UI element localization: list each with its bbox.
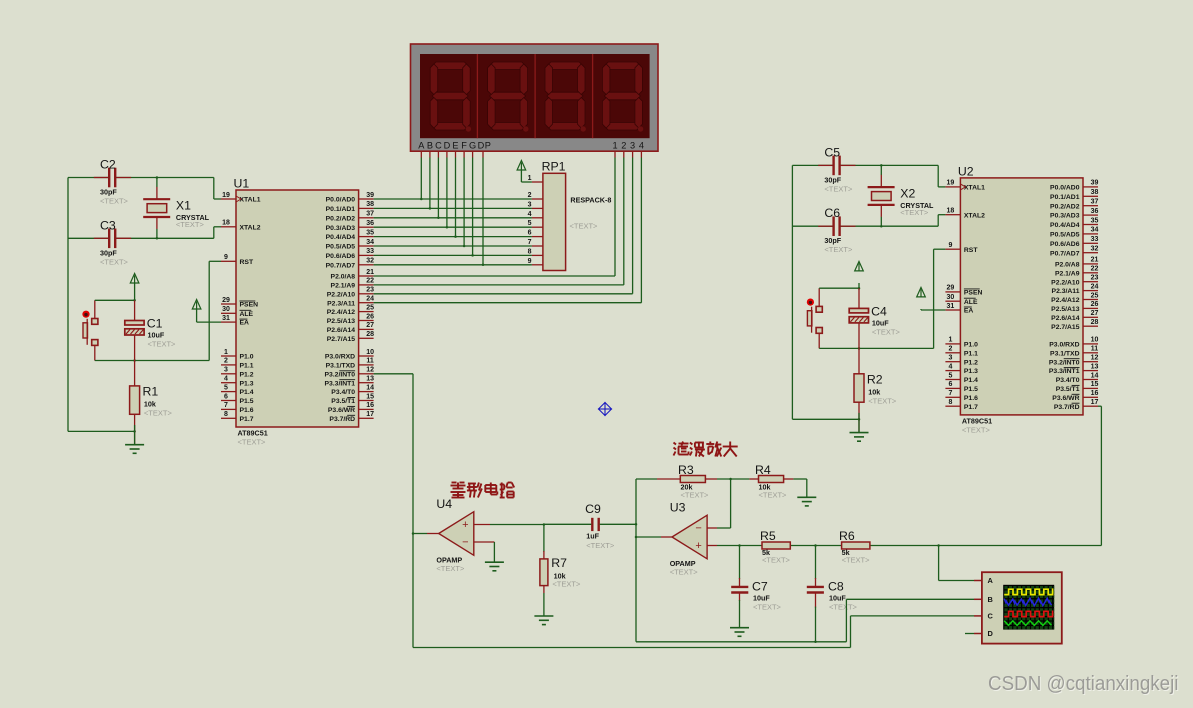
- svg-text:P3.0/RXD: P3.0/RXD: [1049, 342, 1079, 349]
- svg-text:P0.4/AD4: P0.4/AD4: [326, 234, 356, 241]
- svg-text:U3: U3: [670, 501, 686, 515]
- wire P2.2 net: U1 to display digit select 3: [374, 158, 633, 294]
- capacitor C6 30pF: [824, 206, 853, 254]
- svg-text:C4: C4: [871, 304, 887, 318]
- svg-text:C: C: [435, 140, 442, 150]
- svg-text:30: 30: [222, 306, 230, 313]
- wire P0.4 net: display segment E to U1 and RP1 pin 6: [374, 158, 532, 238]
- svg-text:P3.4/T0: P3.4/T0: [331, 389, 355, 396]
- svg-text:P0.7/AD7: P0.7/AD7: [326, 262, 356, 269]
- wire P2.0 net: U1 to display digit select 1: [374, 158, 615, 277]
- svg-text:U4: U4: [436, 497, 452, 511]
- wire P2.1 net: U1 to display digit select 2: [374, 158, 624, 285]
- wire button bottom to RST node: [819, 333, 933, 349]
- ground below R7: [534, 615, 553, 617]
- svg-text:35: 35: [366, 229, 374, 236]
- svg-text:AT89C51: AT89C51: [962, 416, 992, 425]
- wire RST net (button/cap/res to RST pin): [934, 249, 946, 348]
- svg-text:5: 5: [224, 384, 228, 391]
- wire C9 left lead to U4/R7 node: [544, 523, 591, 525]
- svg-text:4: 4: [948, 363, 952, 370]
- svg-text:10: 10: [1091, 337, 1099, 344]
- svg-text:ALE: ALE: [240, 311, 254, 318]
- ground at U4 inverting input: [485, 561, 504, 563]
- svg-text:17: 17: [366, 411, 374, 418]
- svg-text:10uF: 10uF: [148, 331, 165, 340]
- svg-text:P0.1/AD1: P0.1/AD1: [1050, 194, 1080, 201]
- svg-text:12: 12: [1091, 355, 1099, 362]
- wire scope D stub: [965, 633, 974, 635]
- svg-text:P0.3/AD3: P0.3/AD3: [326, 225, 356, 232]
- svg-text:P3.1/TXD: P3.1/TXD: [1050, 350, 1080, 357]
- wire XTAL2 net (C6 / X2 / XTAL2): [792, 205, 945, 228]
- mcu U1 AT89C51: [221, 177, 374, 447]
- svg-text:5: 5: [948, 372, 952, 379]
- wire P0.0 net: display segment A to U1 and RP1 pin 2: [374, 158, 532, 201]
- mcu U2 right pins P0 P2 P3: [1049, 180, 1099, 411]
- svg-text:P2.0/A8: P2.0/A8: [331, 274, 356, 281]
- power terminal at EA pin: [192, 300, 221, 323]
- op-amp U4 OPAMP: [436, 497, 473, 573]
- svg-text:36: 36: [366, 220, 374, 227]
- svg-text:P3.5/T1: P3.5/T1: [331, 398, 355, 405]
- crystal X1 CRYSTAL: [143, 199, 209, 230]
- wire P0.3 net: display segment D to U1 and RP1 pin 5: [374, 158, 532, 229]
- svg-text:R6: R6: [839, 529, 855, 543]
- svg-text:P0.6/AD6: P0.6/AD6: [1050, 241, 1080, 248]
- resistor R5 5k: [760, 529, 791, 565]
- svg-text:P1.5: P1.5: [240, 398, 254, 405]
- svg-text:P2.7/A15: P2.7/A15: [327, 336, 356, 343]
- wire P0.2 net: display segment C to U1 and RP1 pin 4: [374, 158, 532, 220]
- svg-text:21: 21: [366, 269, 374, 276]
- svg-text:P2.6/A14: P2.6/A14: [1051, 315, 1080, 322]
- svg-text:<TEXT>: <TEXT>: [829, 603, 858, 612]
- svg-text:P1.3: P1.3: [964, 368, 978, 375]
- svg-text:16: 16: [1091, 390, 1099, 397]
- capacitor C8 10uF: [807, 546, 858, 612]
- svg-text:R1: R1: [143, 385, 159, 399]
- caption text: shaping circuit (Chinese): [451, 483, 515, 498]
- svg-text:<TEXT>: <TEXT>: [238, 438, 267, 447]
- svg-text:P0.0/AD0: P0.0/AD0: [1050, 185, 1080, 192]
- svg-text:<TEXT>: <TEXT>: [100, 257, 129, 266]
- svg-text:DP: DP: [478, 140, 492, 150]
- svg-text:P2.3/A11: P2.3/A11: [1052, 288, 1080, 295]
- svg-text:13: 13: [366, 376, 374, 383]
- svg-text:3: 3: [948, 355, 952, 362]
- svg-text:10uF: 10uF: [872, 318, 889, 327]
- scope waveform channel D green triangle: [1004, 621, 1051, 626]
- svg-text:24: 24: [366, 296, 374, 303]
- svg-text:<TEXT>: <TEXT>: [144, 409, 173, 418]
- svg-text:8: 8: [948, 399, 952, 406]
- svg-text:16: 16: [366, 402, 374, 409]
- svg-text:10k: 10k: [144, 400, 156, 409]
- wire U3 non-inverting input row to R5 R6 and scope A: [707, 406, 1101, 580]
- svg-text:<TEXT>: <TEXT>: [100, 197, 129, 206]
- svg-text:35: 35: [1091, 217, 1099, 224]
- svg-text:1: 1: [224, 349, 228, 356]
- wire R7 bottom to ground: [543, 586, 545, 616]
- wire RST net (button/cap/res to RST pin): [209, 261, 221, 360]
- svg-text:CSDN @cqtianxingkeji: CSDN @cqtianxingkeji: [988, 673, 1179, 695]
- wire P0.6 net: display segment G to U1 and RP1 pin 8: [374, 158, 532, 257]
- svg-text:<TEXT>: <TEXT>: [753, 603, 782, 612]
- svg-text:32: 32: [1091, 246, 1099, 253]
- wire C4 bottom to R2 top: [858, 323, 860, 374]
- resistor R2 10k: [854, 372, 897, 405]
- wire R7 top lead: [543, 524, 545, 559]
- svg-text:XTAL2: XTAL2: [964, 212, 985, 219]
- svg-text:P0.7/AD7: P0.7/AD7: [1050, 250, 1080, 257]
- svg-text:P3.1/TXD: P3.1/TXD: [326, 363, 356, 370]
- svg-text:<TEXT>: <TEXT>: [586, 541, 615, 550]
- mcu U2 AT89C51: [945, 164, 1098, 434]
- svg-text:23: 23: [366, 287, 374, 294]
- svg-text:P1.2: P1.2: [964, 359, 978, 366]
- op-amp U3 OPAMP: [670, 501, 707, 577]
- svg-text:<TEXT>: <TEXT>: [762, 556, 791, 565]
- svg-text:<TEXT>: <TEXT>: [681, 491, 710, 500]
- svg-text:+: +: [462, 519, 468, 531]
- svg-text:P2.5/A13: P2.5/A13: [1051, 306, 1080, 313]
- svg-text:P0.0/AD0: P0.0/AD0: [326, 197, 356, 204]
- svg-text:A: A: [988, 576, 994, 585]
- svg-text:P0.1/AD1: P0.1/AD1: [326, 206, 356, 213]
- svg-text:P0.6/AD6: P0.6/AD6: [326, 253, 356, 260]
- svg-text:X2: X2: [900, 186, 915, 200]
- oscilloscope (4-channel) icon: [974, 572, 1062, 643]
- svg-text:18: 18: [222, 220, 230, 227]
- svg-text:C9: C9: [585, 502, 601, 516]
- svg-text:11: 11: [1091, 346, 1099, 353]
- svg-text:P0.5/AD5: P0.5/AD5: [1050, 232, 1080, 239]
- wire ground rail left: [792, 165, 860, 420]
- capacitor C4 10uF electrolytic: [849, 288, 900, 336]
- svg-text:P3.6/WR: P3.6/WR: [328, 407, 355, 414]
- svg-text:P0.2/AD2: P0.2/AD2: [1050, 203, 1080, 210]
- svg-text:1: 1: [948, 337, 952, 344]
- capacitor C3 30pF: [100, 218, 129, 266]
- wire button top to VCC node: [95, 299, 136, 318]
- svg-text:B: B: [988, 595, 993, 604]
- svg-text:R5: R5: [760, 529, 776, 543]
- svg-text:30pF: 30pF: [100, 188, 117, 197]
- wire P0.5 net: display segment F to U1 and RP1 pin 7: [374, 158, 532, 248]
- svg-text:R2: R2: [867, 372, 883, 386]
- resistor R4 10k: [755, 463, 787, 500]
- svg-text:P2.2/A10: P2.2/A10: [327, 291, 356, 298]
- svg-text:9: 9: [224, 254, 228, 261]
- svg-text:37: 37: [366, 211, 374, 218]
- svg-text:R7: R7: [551, 556, 567, 570]
- svg-text:RP1: RP1: [542, 160, 566, 174]
- svg-text:22: 22: [1091, 266, 1099, 273]
- svg-text:C6: C6: [824, 206, 840, 220]
- wire XTAL1 net (C5 / X2 / XTAL1): [792, 164, 945, 187]
- svg-text:<TEXT>: <TEXT>: [148, 340, 177, 349]
- svg-text:P3.4/T0: P3.4/T0: [1056, 377, 1080, 384]
- svg-text:34: 34: [366, 239, 374, 246]
- power terminal VCC above C4: [855, 261, 864, 288]
- svg-text:X1: X1: [176, 199, 191, 213]
- svg-text:P1.0: P1.0: [964, 342, 978, 349]
- svg-text:32: 32: [366, 258, 374, 265]
- power terminal at EA pin: [917, 287, 946, 310]
- svg-text:13: 13: [1091, 363, 1099, 370]
- svg-text:39: 39: [1091, 180, 1099, 187]
- svg-text:<TEXT>: <TEXT>: [868, 396, 897, 405]
- svg-text:XTAL2: XTAL2: [240, 224, 261, 231]
- svg-text:P0.2/AD2: P0.2/AD2: [326, 215, 356, 222]
- svg-text:24: 24: [1091, 283, 1099, 290]
- svg-text:<TEXT>: <TEXT>: [552, 580, 581, 589]
- scope waveform channel B blue sine: [1004, 598, 1051, 606]
- svg-text:<TEXT>: <TEXT>: [824, 245, 853, 254]
- wire button top to VCC node: [819, 287, 860, 306]
- svg-text:RST: RST: [240, 259, 254, 266]
- svg-text:34: 34: [1091, 227, 1099, 234]
- wire C8 bottom to U3 output rail (scope B net): [636, 599, 974, 643]
- wire R3 right to R4 left and U3 inverting input: [705, 478, 758, 528]
- wire P2.3 net: U1 to display digit select 4: [374, 158, 642, 303]
- wire U3 output vertical and feedback / scope B rail: [635, 479, 681, 642]
- wire U4 inverting input to ground: [474, 542, 495, 562]
- svg-text:30pF: 30pF: [824, 175, 841, 184]
- push button (reset): [82, 311, 97, 346]
- svg-text:P1.0: P1.0: [240, 354, 254, 361]
- mcu U1 right pins P0 P2 P3: [324, 192, 374, 423]
- svg-text:C1: C1: [147, 317, 163, 331]
- svg-text:P1.2: P1.2: [240, 371, 254, 378]
- svg-text:15: 15: [1091, 381, 1099, 388]
- svg-text:XTAL1: XTAL1: [240, 197, 261, 204]
- ground below C7: [730, 627, 749, 629]
- svg-text:2: 2: [621, 140, 626, 150]
- svg-text:4: 4: [224, 376, 228, 383]
- svg-text:AT89C51: AT89C51: [238, 429, 268, 438]
- svg-text:33: 33: [1091, 236, 1099, 243]
- svg-text:−: −: [695, 522, 701, 534]
- wire button bottom to RST node: [95, 345, 209, 361]
- capacitor C9 1uF: [585, 502, 615, 550]
- wire XTAL1 net (C2 / X1 / XTAL1): [68, 176, 221, 199]
- svg-text:RESPACK-8: RESPACK-8: [570, 196, 611, 205]
- scope waveform channel A yellow square: [1004, 589, 1053, 594]
- power terminal VCC above C1: [130, 274, 139, 301]
- svg-text:38: 38: [1091, 189, 1099, 196]
- svg-text:P1.6: P1.6: [240, 407, 254, 414]
- svg-text:27: 27: [1091, 310, 1099, 317]
- wire U4 non-inverting input to R7/C9 node: [474, 523, 545, 526]
- svg-text:U1: U1: [234, 177, 250, 191]
- svg-text:<TEXT>: <TEXT>: [570, 222, 599, 231]
- wire C9 right lead to U3 output vertical: [600, 523, 638, 526]
- svg-text:28: 28: [1091, 319, 1099, 326]
- svg-text:P1.4: P1.4: [964, 377, 978, 384]
- svg-text:3: 3: [224, 367, 228, 374]
- svg-text:<TEXT>: <TEXT>: [962, 425, 991, 434]
- svg-text:EA: EA: [240, 320, 250, 327]
- svg-text:6: 6: [224, 393, 228, 400]
- svg-text:P2.5/A13: P2.5/A13: [327, 318, 356, 325]
- svg-text:R3: R3: [678, 463, 694, 477]
- svg-text:37: 37: [1091, 199, 1099, 206]
- svg-text:P3.0/RXD: P3.0/RXD: [325, 354, 355, 361]
- svg-text:C8: C8: [828, 580, 844, 594]
- svg-text:38: 38: [366, 201, 374, 208]
- svg-text:31: 31: [947, 303, 955, 310]
- svg-text:P3.7/RD: P3.7/RD: [329, 416, 355, 423]
- svg-text:P1.6: P1.6: [964, 395, 978, 402]
- svg-text:P1.1: P1.1: [964, 350, 978, 357]
- svg-text:4: 4: [528, 211, 532, 218]
- svg-text:2: 2: [948, 346, 952, 353]
- svg-text:33: 33: [366, 248, 374, 255]
- svg-text:4: 4: [639, 140, 644, 150]
- svg-text:E: E: [452, 140, 458, 150]
- svg-text:A: A: [418, 140, 425, 150]
- svg-text:21: 21: [1091, 257, 1099, 264]
- svg-text:P3.3/INT1: P3.3/INT1: [324, 380, 355, 387]
- capacitor C1 10uF electrolytic: [125, 300, 176, 348]
- svg-text:26: 26: [366, 313, 374, 320]
- svg-text:P3.3/INT1: P3.3/INT1: [1049, 368, 1080, 375]
- svg-text:18: 18: [947, 208, 955, 215]
- capacitor C5 30pF: [824, 145, 853, 193]
- svg-text:7: 7: [224, 402, 228, 409]
- svg-text:6: 6: [528, 230, 532, 237]
- svg-text:15: 15: [366, 393, 374, 400]
- svg-text:+: +: [695, 540, 701, 552]
- svg-text:25: 25: [366, 304, 374, 311]
- mcu U2 left pins XTAL1 XTAL2 RST PSEN ALE EA P1.0-P1.7: [945, 180, 985, 411]
- svg-text:10uF: 10uF: [753, 594, 770, 603]
- svg-text:<TEXT>: <TEXT>: [824, 184, 853, 193]
- svg-text:C5: C5: [824, 145, 840, 159]
- svg-text:30pF: 30pF: [824, 236, 841, 245]
- wire R2 bottom to ground: [858, 402, 860, 432]
- ground right of R4: [797, 496, 816, 498]
- svg-text:30pF: 30pF: [100, 248, 117, 257]
- wire P0.7 net: display segment DP to U1 and RP1 pin 9: [374, 158, 532, 267]
- svg-text:2: 2: [528, 192, 532, 199]
- svg-text:P2.4/A12: P2.4/A12: [1051, 297, 1080, 304]
- svg-text:6: 6: [948, 381, 952, 388]
- svg-text:29: 29: [947, 285, 955, 292]
- svg-text:17: 17: [1091, 399, 1099, 406]
- svg-text:10k: 10k: [868, 387, 880, 396]
- svg-text:U2: U2: [958, 164, 974, 178]
- crystal X2 CRYSTAL: [868, 186, 934, 217]
- svg-text:D: D: [444, 140, 451, 150]
- svg-text:F: F: [461, 140, 467, 150]
- svg-text:8: 8: [528, 248, 532, 255]
- svg-text:11: 11: [366, 358, 374, 365]
- svg-text:P0.5/AD5: P0.5/AD5: [326, 244, 356, 251]
- ground below R2: [850, 432, 869, 434]
- svg-text:P2.4/A12: P2.4/A12: [327, 309, 356, 316]
- svg-text:<TEXT>: <TEXT>: [670, 567, 699, 576]
- svg-text:5: 5: [528, 220, 532, 227]
- svg-text:P0.3/AD3: P0.3/AD3: [1050, 213, 1080, 220]
- svg-text:PSEN: PSEN: [964, 290, 983, 297]
- svg-text:22: 22: [366, 278, 374, 285]
- 7-segment display 7SEG-MPX4: [411, 44, 659, 158]
- svg-text:<TEXT>: <TEXT>: [872, 327, 901, 336]
- capacitor C2 30pF: [100, 158, 129, 206]
- svg-text:EA: EA: [964, 308, 974, 315]
- svg-text:C2: C2: [100, 158, 116, 172]
- svg-text:P3.7/RD: P3.7/RD: [1054, 404, 1080, 411]
- resistor R7 10k: [540, 556, 581, 589]
- svg-text:G: G: [469, 140, 476, 150]
- wire R4 right to ground: [784, 479, 807, 497]
- resistor R3 20k (feedback): [678, 463, 709, 500]
- resistor R6 5k: [839, 529, 870, 565]
- svg-text:PSEN: PSEN: [240, 302, 259, 309]
- svg-text:27: 27: [366, 322, 374, 329]
- resistor pack RP1 RESPACK-8: [528, 160, 612, 271]
- wire XTAL2 net (C3 / X1 / XTAL2): [68, 217, 221, 240]
- svg-text:P2.3/A11: P2.3/A11: [327, 300, 355, 307]
- svg-text:R4: R4: [755, 463, 771, 477]
- power terminal for RP1 pin 1: [517, 161, 532, 183]
- svg-text:P1.3: P1.3: [240, 380, 254, 387]
- caption text: filter amplification (Chinese): [674, 442, 738, 457]
- svg-text:10uF: 10uF: [829, 594, 846, 603]
- svg-text:P3.2/INT0: P3.2/INT0: [324, 371, 355, 378]
- svg-text:P1.7: P1.7: [964, 404, 978, 411]
- svg-text:10: 10: [366, 349, 374, 356]
- svg-text:P2.6/A14: P2.6/A14: [327, 327, 356, 334]
- svg-text:19: 19: [222, 192, 230, 199]
- svg-text:1: 1: [612, 140, 617, 150]
- svg-text:23: 23: [1091, 275, 1099, 282]
- svg-text:<TEXT>: <TEXT>: [176, 220, 205, 229]
- svg-text:19: 19: [947, 180, 955, 187]
- svg-text:30: 30: [947, 294, 955, 301]
- svg-text:P2.1/A9: P2.1/A9: [331, 283, 356, 290]
- svg-text:29: 29: [222, 297, 230, 304]
- svg-text:12: 12: [366, 367, 374, 374]
- svg-text:P3.6/WR: P3.6/WR: [1052, 395, 1079, 402]
- svg-text:1uF: 1uF: [586, 531, 599, 540]
- svg-text:25: 25: [1091, 292, 1099, 299]
- mcu U1 left pins XTAL1 XTAL2 RST PSEN ALE EA P1.0-P1.7: [221, 192, 261, 423]
- resistor R1 10k: [130, 385, 173, 418]
- scope waveform channel C red square: [1004, 611, 1053, 616]
- svg-text:P3.2/INT0: P3.2/INT0: [1049, 359, 1080, 366]
- svg-text:28: 28: [366, 331, 374, 338]
- svg-text:39: 39: [366, 192, 374, 199]
- svg-text:7: 7: [528, 239, 532, 246]
- svg-text:P2.0/A8: P2.0/A8: [1055, 262, 1080, 269]
- svg-text:3: 3: [630, 140, 635, 150]
- wire shaping output rail to scope C: [413, 616, 974, 648]
- svg-text:26: 26: [1091, 301, 1099, 308]
- svg-text:<TEXT>: <TEXT>: [842, 556, 871, 565]
- blue origin marker: [598, 402, 612, 416]
- svg-text:1: 1: [528, 175, 532, 182]
- svg-text:P1.1: P1.1: [240, 363, 254, 370]
- svg-text:C7: C7: [752, 580, 768, 594]
- svg-text:2: 2: [224, 358, 228, 365]
- svg-text:B: B: [427, 140, 433, 150]
- svg-text:XTAL1: XTAL1: [964, 185, 985, 192]
- svg-text:<TEXT>: <TEXT>: [759, 491, 788, 500]
